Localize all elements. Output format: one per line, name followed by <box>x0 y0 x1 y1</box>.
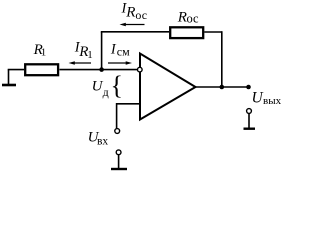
wire (lower terminal to ground) <box>118 155 120 168</box>
ground (output) <box>244 127 256 129</box>
svg-text:1: 1 <box>41 46 47 58</box>
wire (output) <box>195 86 249 88</box>
svg-text:см: см <box>117 45 130 59</box>
ground (left, at R1) <box>2 70 16 85</box>
input terminal circle <box>115 129 120 134</box>
svg-text:вх: вх <box>97 136 108 148</box>
wire (right vertical down to output) <box>221 31 223 87</box>
arrow IRoc (left) <box>124 24 145 26</box>
svg-text:{: { <box>111 71 123 100</box>
output reference terminal circle <box>247 109 252 114</box>
svg-text:ос: ос <box>135 8 147 22</box>
input source lower terminal circle <box>116 150 121 155</box>
node (feedback junction on output) <box>220 85 225 90</box>
resistor Roc <box>170 27 203 38</box>
node A (junction R1 / feedback) <box>99 67 104 72</box>
svg-text:д: д <box>103 85 109 99</box>
wire (top, to Roc) <box>101 31 169 33</box>
inverting input circle <box>138 67 143 72</box>
arrow Icm (right) <box>108 62 127 64</box>
arrow IR1 (left) <box>73 62 91 64</box>
svg-text:R: R <box>177 10 187 26</box>
wire (Roc to right corner) <box>204 31 222 33</box>
wire (feedback vertical) <box>101 32 103 70</box>
svg-text:1: 1 <box>87 49 93 61</box>
wire (R1 to inverting input node) <box>60 69 139 71</box>
wire (non-inverting input) <box>117 103 140 105</box>
svg-text:вых: вых <box>263 95 282 107</box>
resistor R1 <box>25 64 58 75</box>
op-amp U1 <box>140 54 196 120</box>
wire (output ground stem) <box>248 113 250 127</box>
svg-text:R: R <box>125 5 135 21</box>
node (output terminal) <box>246 85 251 90</box>
svg-text:ос: ос <box>187 12 200 26</box>
wire (left ground to R1) <box>8 69 24 71</box>
ground (input) <box>111 168 127 170</box>
